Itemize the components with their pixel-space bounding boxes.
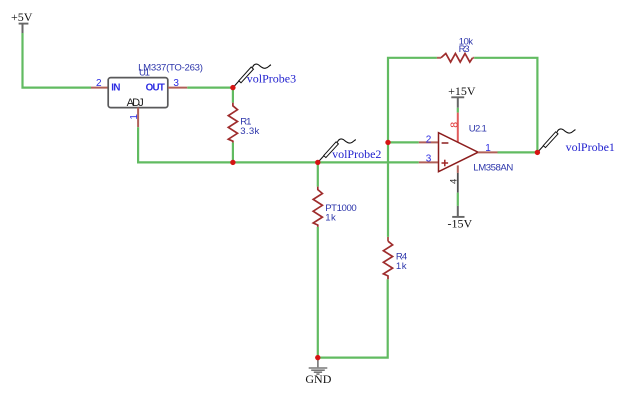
- opamp pin 8 stub: [457, 113, 459, 143]
- regulator U1 LM337 box: [108, 78, 168, 109]
- resistor R4: [383, 241, 392, 279]
- pin 4 grey segment: [457, 173, 459, 193]
- wire PT1000 top lead: [317, 162, 319, 186]
- node volProbe2 junction: [315, 160, 320, 165]
- svg-text:GND: GND: [305, 372, 331, 386]
- svg-text:1: 1: [129, 114, 140, 120]
- wire R1 top lead: [232, 88, 234, 103]
- wire node B to opamp pin 3: [318, 161, 419, 163]
- wire ADJ down and right to node B: [138, 127, 318, 162]
- svg-text:volProbe2: volProbe2: [332, 147, 381, 161]
- power symbol -15V: [447, 206, 472, 231]
- wire output to volProbe1 node: [498, 151, 538, 153]
- node A junction (R1/ADJ): [230, 160, 235, 165]
- ground symbol GND: [309, 358, 328, 375]
- resistor R3: [441, 54, 473, 63]
- power symbol +15V: [448, 84, 476, 108]
- wire +15V to pin 8: [457, 108, 459, 113]
- svg-text:IN: IN: [111, 83, 120, 94]
- resistor R4 leads: [387, 237, 389, 241]
- node volProbe3 junction: [230, 85, 235, 90]
- svg-text:4: 4: [449, 179, 460, 184]
- svg-text:8: 8: [448, 122, 460, 128]
- opamp pin 4 stub: [457, 165, 459, 173]
- node pin2 tap junction: [385, 140, 390, 145]
- svg-text:-15V: -15V: [447, 217, 472, 231]
- node GND junction: [315, 355, 320, 360]
- probe volProbe3: [234, 64, 272, 87]
- svg-text:+5V: +5V: [11, 10, 33, 24]
- wire R4 top up to R3 row and pin2 node: [388, 58, 437, 237]
- wire GND row to R4 bottom: [318, 279, 388, 357]
- U1 pin 1 ADJ stub: [137, 108, 139, 128]
- svg-text:2: 2: [96, 78, 102, 89]
- svg-text:R3: R3: [459, 44, 470, 55]
- resistor R3 right lead: [473, 57, 475, 59]
- opamp pin 3 stub: [419, 161, 438, 163]
- svg-text:+15V: +15V: [448, 84, 476, 98]
- node volProbe1 junction: [535, 150, 540, 155]
- svg-text:U2.1: U2.1: [469, 123, 487, 134]
- svg-text:2: 2: [426, 134, 432, 145]
- svg-text:1k: 1k: [396, 261, 407, 272]
- wire node to opamp pin 2: [388, 141, 419, 143]
- resistor R1: [228, 103, 237, 143]
- wire PT1000 bottom to GND node: [317, 227, 319, 358]
- resistor PT1000: [313, 187, 322, 227]
- U1 pin 2 stub: [91, 87, 108, 89]
- svg-text:3: 3: [173, 78, 179, 89]
- svg-text:U1: U1: [139, 68, 150, 79]
- wire R1 bottom lead to node A: [232, 143, 234, 163]
- probe volProbe2: [318, 139, 356, 162]
- wire R3 to output node: [474, 58, 537, 153]
- op-amp U2.1: [439, 133, 479, 172]
- svg-text:3: 3: [426, 154, 432, 165]
- wire +5V to U1 IN: [23, 33, 92, 88]
- probe volProbe1: [538, 129, 576, 152]
- resistor R3 left lead: [437, 57, 441, 59]
- svg-text:LM358AN: LM358AN: [473, 163, 513, 174]
- U1 pin 3 stub: [168, 87, 187, 89]
- svg-text:3.3k: 3.3k: [240, 126, 259, 137]
- power symbol +5V: [11, 10, 33, 33]
- svg-text:volProbe3: volProbe3: [247, 71, 296, 85]
- svg-text:volProbe1: volProbe1: [566, 140, 615, 154]
- wire pin 4 to -15V: [457, 193, 459, 206]
- svg-text:1k: 1k: [325, 212, 336, 223]
- wire OUT to volProbe3 node: [187, 86, 233, 88]
- svg-text:1: 1: [485, 143, 491, 154]
- opamp pin 2 stub: [419, 141, 438, 143]
- svg-text:ADJ: ADJ: [127, 97, 144, 109]
- svg-text:OUT: OUT: [146, 83, 165, 94]
- opamp output pin 1 stub: [478, 151, 498, 153]
